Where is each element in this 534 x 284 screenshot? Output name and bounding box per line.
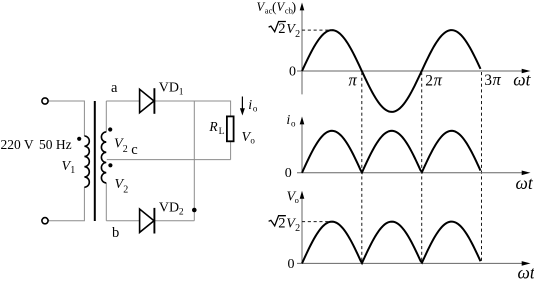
wire top rail from node a to load corner [106, 100, 230, 102]
svg-text:1: 1 [179, 88, 184, 98]
polarity dot secondary lower [108, 163, 112, 167]
chart3 x-axis [297, 262, 523, 264]
label sqrt2 V2 chart1 [269, 21, 301, 40]
terminal top [42, 98, 48, 104]
chart2 current io curve [302, 131, 481, 173]
svg-text:2: 2 [278, 215, 285, 231]
svg-text:0: 0 [285, 166, 292, 181]
label Vac(Vcb) [257, 0, 297, 16]
wire center tap c to RL bottom [107, 159, 231, 161]
svg-text:ωt: ωt [516, 173, 534, 193]
terminal bottom [42, 218, 48, 224]
wire node b riser from secondary coil [105, 183, 107, 221]
dashed vertical at 2pi [421, 72, 423, 263]
resistor RL [227, 116, 234, 141]
svg-text:R: R [208, 119, 218, 134]
svg-text:ωt: ωt [518, 262, 534, 282]
wire right rail into RL top [230, 101, 232, 117]
chart1 dashed peak level [302, 29, 332, 31]
svg-text:VD: VD [159, 201, 179, 216]
svg-text:2: 2 [123, 144, 128, 155]
svg-text:ωt: ωt [513, 69, 531, 89]
svg-text:c: c [131, 142, 137, 158]
svg-text:L: L [219, 127, 225, 137]
chart2 y-axis [301, 124, 303, 173]
secondary winding V2 [101, 132, 106, 183]
svg-text:220 V: 220 V [1, 137, 34, 152]
wire RL bottom to tap corner [230, 141, 232, 159]
chart3 y-axis [301, 198, 303, 263]
svg-text:2: 2 [425, 73, 433, 90]
label 3pi [484, 70, 501, 89]
polarity dot secondary top [108, 127, 112, 131]
dashed vertical at pi [361, 72, 363, 263]
chart3 dashed peak level [302, 221, 332, 223]
label sqrt2 V2 chart3 [269, 215, 301, 234]
svg-text:a: a [111, 80, 118, 96]
chart1 x-axis [297, 70, 523, 72]
chart1 y-axis [301, 10, 303, 94]
svg-text:π: π [493, 70, 502, 89]
svg-text:π: π [434, 71, 443, 90]
primary winding V1 [84, 136, 89, 187]
svg-text:2: 2 [295, 223, 300, 234]
svg-text:3: 3 [484, 72, 492, 89]
svg-text:2: 2 [123, 184, 128, 195]
chart1 sine Vac [302, 30, 481, 112]
chart3 Vo curve [302, 222, 481, 264]
wire bottom rail from node b to VD2 junction [106, 220, 194, 222]
polarity dot primary [77, 137, 81, 141]
svg-text:o: o [250, 135, 255, 145]
svg-text:2: 2 [179, 208, 184, 218]
svg-text:π: π [349, 71, 358, 90]
svg-text:50 Hz: 50 Hz [39, 137, 72, 152]
svg-text:0: 0 [288, 257, 295, 272]
arrow io [240, 97, 245, 116]
wire node a drop to secondary coil [105, 101, 107, 132]
chart2 x-axis [297, 172, 523, 174]
svg-text:i: i [286, 113, 290, 128]
svg-text:o: o [253, 103, 258, 113]
svg-text:i: i [248, 98, 252, 113]
wire primary input bottom [48, 187, 84, 221]
diode VD2 [140, 208, 155, 234]
svg-text:VD: VD [159, 81, 179, 96]
svg-text:b: b [112, 225, 119, 241]
svg-text:o: o [291, 119, 296, 129]
svg-text:o: o [295, 195, 299, 205]
transformer core [94, 101, 96, 221]
junction dot on VD2 branch [192, 208, 197, 213]
svg-text:2: 2 [295, 29, 300, 40]
wire primary input top [48, 101, 84, 136]
diode VD1 [140, 88, 155, 114]
svg-text:1: 1 [70, 165, 75, 176]
svg-text:0: 0 [289, 64, 296, 79]
wire cathode junction vertical [193, 101, 195, 221]
svg-text:): ) [292, 0, 297, 14]
dashed vertical at 3pi [481, 72, 483, 263]
label 2pi [425, 71, 442, 90]
svg-text:2: 2 [278, 21, 285, 37]
